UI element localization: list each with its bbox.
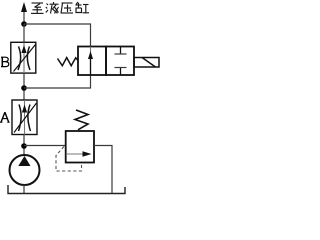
至 (32, 2, 44, 4)
wire: top node to valve B (23, 24, 25, 43)
relief valve spring (75, 110, 88, 130)
wire: top node to directional valve A-port (24, 24, 91, 47)
wire: relief valve outlet to tank (94, 146, 112, 194)
pilot line (dashed) (56, 147, 82, 172)
压 (62, 2, 73, 4)
wire to cylinder (23, 10, 25, 25)
缸 (76, 2, 78, 5)
node dot bottom (21, 143, 27, 149)
label 至液压缸 (31, 2, 89, 14)
throttle valve A (12, 100, 37, 135)
pump (10, 155, 40, 185)
throttle valve B (11, 42, 36, 73)
wire: middle node to directional valve P-port (24, 75, 91, 88)
directional valve body right square (blocked position) (106, 47, 134, 76)
arrow to cylinder (21, 2, 27, 12)
spring (valve return) (58, 58, 79, 66)
wire: valve A to pump (23, 135, 25, 157)
relief valve (66, 131, 94, 163)
tank line (8, 185, 125, 194)
solenoid actuator (134, 58, 159, 68)
directional valve body left square (flow position) (78, 47, 106, 76)
wire: bottom node to relief valve inlet (24, 145, 66, 147)
label A (0, 112, 10, 122)
wire: valve B to valve A (23, 73, 25, 100)
wire: pump suction to tank (23, 185, 25, 194)
label B (1, 57, 9, 66)
node dot middle (21, 85, 27, 91)
液 (47, 4, 49, 6)
node dot top (21, 21, 27, 27)
